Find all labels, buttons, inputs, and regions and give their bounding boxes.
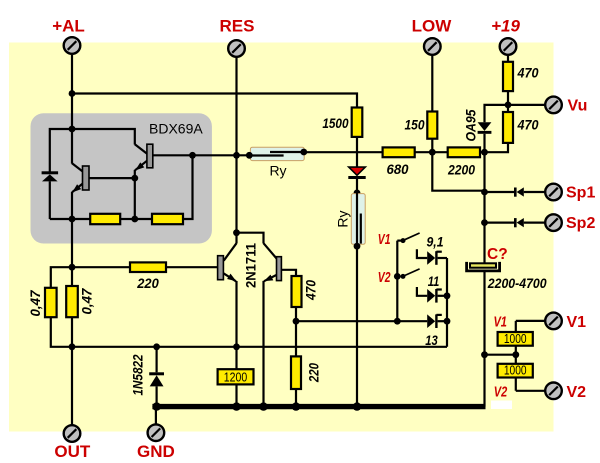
wire to 220 feed: [72, 266, 130, 268]
wire 13 row: [397, 320, 427, 322]
wire base junction to R2: [183, 155, 193, 219]
wire emitter bus left: [50, 218, 90, 220]
wire T1 emitter down: [235, 281, 237, 347]
wire Q1 emitter down: [71, 192, 73, 219]
svg-text:0,47: 0,47: [27, 289, 43, 316]
white patch artifact: [491, 401, 512, 410]
wire left 0,47 branch: [51, 267, 72, 288]
node OA95 bottom: [481, 149, 488, 156]
node BDX base junction: [189, 152, 196, 159]
wire divider vertical: [515, 321, 517, 391]
wire RES vertical: [235, 57, 237, 155]
wire Q2 emitter down: [134, 178, 136, 219]
svg-text:V1: V1: [378, 231, 391, 248]
wire bus to Sp1: [483, 152, 485, 192]
wire Sp1 row: [485, 191, 515, 193]
resistor BDX internal R1: [90, 214, 120, 224]
svg-text:2200: 2200: [447, 162, 475, 178]
diode relay flyback (red): [349, 167, 366, 175]
wire Q2 base: [153, 154, 193, 156]
BDX69A module body: [31, 113, 212, 243]
diode OA95: [478, 122, 492, 131]
resistor 1000 upper: [498, 332, 533, 346]
transistor Q2 (BDX69A driver): [135, 144, 148, 154]
relay contact Ry: [250, 147, 304, 160]
svg-text:1N5822: 1N5822: [129, 354, 145, 395]
node Q2 emitter: [131, 175, 138, 182]
node Sp1: [481, 189, 488, 196]
wire 2N1711 collectors: [237, 233, 264, 244]
node OUT column: [69, 343, 76, 350]
wire to V1 terminal: [516, 320, 545, 322]
node 1N5822: [153, 343, 160, 350]
wire LOW vertical: [431, 55, 433, 112]
svg-text:OUT: OUT: [54, 442, 91, 461]
node V divider tap: [481, 351, 488, 358]
wire 470 to Vu node: [507, 91, 509, 105]
svg-text:RES: RES: [220, 17, 255, 36]
diode Sp2: [514, 218, 517, 227]
terminal LOW: [424, 38, 441, 55]
node RES at contact row: [233, 152, 240, 159]
wire 1500 to relay diode: [356, 137, 358, 167]
wire Q1 base: [89, 177, 135, 179]
terminal +AL: [64, 37, 81, 54]
node zener 11 cathode: [444, 292, 451, 299]
zener 9,1: [417, 249, 427, 258]
wire emitter column to OUT branch: [71, 219, 73, 267]
wire 2200 to OA95 node: [480, 151, 485, 153]
svg-text:C?: C?: [487, 246, 508, 263]
resistor 470 lower: [507, 105, 509, 112]
svg-text:220: 220: [136, 275, 159, 291]
wire diode to emitter bus: [49, 181, 51, 219]
node 13 row left: [394, 318, 401, 325]
wire collector to Q2: [72, 129, 135, 145]
svg-text:GND: GND: [137, 442, 175, 461]
node BDX collector: [69, 126, 76, 133]
wire 470 lower to node: [485, 143, 509, 152]
svg-text:Vu: Vu: [568, 98, 588, 115]
svg-text:1500: 1500: [322, 115, 348, 131]
svg-text:0,47: 0,47: [79, 287, 95, 314]
node feedback: [293, 318, 300, 325]
relay coil Ry: [351, 194, 365, 245]
wire bus to capacitor: [483, 223, 485, 264]
wire RES down to 2N1711: [235, 155, 237, 232]
svg-text:+AL: +AL: [52, 17, 85, 36]
wire right 0,47 branch: [71, 267, 73, 286]
node rail T2 emitter: [259, 402, 267, 410]
wire R2 to center node: [135, 218, 152, 220]
terminal Vu: [545, 97, 562, 114]
wire to Vu terminal: [508, 104, 545, 106]
svg-text:Ry: Ry: [335, 210, 351, 227]
transistor 2N1711 T2: [264, 243, 277, 259]
node 2N1711 collector: [233, 229, 240, 236]
transistor 2N1711 T1: [235, 233, 237, 244]
node +AL rail tap: [69, 90, 76, 97]
svg-text:LOW: LOW: [412, 17, 453, 36]
svg-text:V2: V2: [567, 384, 587, 401]
node coil top: [354, 190, 361, 197]
svg-text:1000: 1000: [504, 332, 527, 346]
wire +AL vertical: [71, 55, 73, 164]
wire +AL rail to 1500: [72, 94, 357, 108]
wire LOW to Sp node: [432, 152, 484, 191]
wire Sp2 row: [485, 222, 515, 224]
svg-text:Ry: Ry: [269, 163, 286, 179]
svg-text:V1: V1: [493, 314, 507, 331]
terminal OUT: [64, 425, 81, 442]
resistor 0,47 left: [45, 288, 57, 317]
svg-text:BDX69A: BDX69A: [149, 120, 203, 136]
zener 11: [417, 287, 427, 296]
node Sp2: [481, 219, 488, 226]
wire switch column: [396, 241, 398, 322]
svg-text:1000: 1000: [504, 364, 527, 378]
svg-text:V2: V2: [378, 269, 391, 286]
svg-text:1200: 1200: [224, 370, 247, 384]
wire capacitor to V node: [483, 272, 485, 355]
node rail 1200: [232, 402, 240, 410]
node Q1 emitter: [69, 216, 76, 223]
wire 0,47 left to bottom: [51, 317, 72, 347]
svg-text:V2: V2: [494, 384, 508, 401]
resistor 1000 lower: [498, 364, 533, 378]
wire GND stub: [155, 408, 157, 424]
terminal V1: [545, 313, 562, 330]
svg-text:+19: +19: [491, 17, 520, 36]
node T1 emitter row: [233, 343, 240, 350]
terminal RES: [228, 40, 245, 57]
svg-text:470: 470: [303, 280, 319, 301]
resistor 680: [383, 147, 415, 157]
wire 150 to junction: [431, 139, 433, 153]
node LOW junction: [429, 149, 436, 156]
node rail 220: [292, 402, 300, 410]
node Vu: [505, 102, 512, 109]
svg-text:13: 13: [425, 332, 438, 348]
diode Sp1: [514, 188, 517, 197]
resistor 470 (T2 base): [292, 276, 302, 307]
resistor 0,47 right: [66, 286, 78, 317]
node internal center: [131, 216, 138, 223]
wire bottom sense row: [72, 346, 447, 348]
wire 220 to rail: [295, 389, 297, 407]
svg-text:2200-4700: 2200-4700: [487, 275, 547, 291]
wire T2 emitter to rail: [262, 281, 264, 407]
wire to V2 terminal: [516, 390, 545, 392]
svg-text:11: 11: [428, 273, 440, 289]
wire V node to rail end: [483, 355, 485, 407]
wire 470 to feedback node: [295, 307, 297, 321]
terminal Sp2: [545, 214, 562, 231]
svg-text:2N1711: 2N1711: [242, 243, 258, 288]
capacitor C? 2200-4700: [470, 263, 496, 267]
svg-text:150: 150: [405, 117, 425, 133]
wire 680 to 2200: [415, 151, 448, 153]
wire feedback node to 220: [295, 321, 297, 356]
node coil bottom: [354, 243, 361, 250]
node rail coil: [353, 402, 361, 410]
wire V node to divider: [485, 354, 516, 356]
wire +19 to 470: [507, 55, 509, 62]
wire 220 to T1 base: [166, 266, 218, 268]
resistor BDX internal R2: [152, 214, 183, 224]
resistor 150: [427, 112, 437, 139]
resistor 2200: [448, 147, 480, 157]
wire diode to coil: [356, 179, 358, 193]
transistor Q1 (BDX69A output): [72, 163, 83, 171]
node OUT branch: [69, 264, 76, 271]
terminal V2: [545, 383, 562, 400]
svg-text:9,1: 9,1: [427, 233, 444, 249]
wire to OUT terminal: [71, 347, 73, 425]
node zener 13 cathode: [444, 318, 451, 325]
wire coil to ground rail: [356, 244, 358, 406]
resistor 470 upper: [503, 62, 513, 91]
svg-text:V1: V1: [567, 314, 587, 331]
terminal Sp1: [545, 184, 562, 201]
wire R1 to center node: [120, 218, 135, 220]
node divider center: [512, 351, 519, 358]
zener 13: [427, 314, 435, 328]
svg-text:OA95: OA95: [462, 109, 478, 141]
svg-text:680: 680: [387, 161, 409, 177]
wire feedback row: [296, 320, 397, 322]
node rail GND: [152, 402, 160, 410]
wire contact to 680: [304, 151, 383, 153]
svg-text:220: 220: [306, 363, 322, 383]
ground rail: [152, 404, 485, 409]
resistor 1200: [218, 369, 254, 384]
wire T1 emitter to rail: [235, 347, 237, 407]
terminal +19: [500, 38, 517, 55]
wire Vu node to OA95: [485, 105, 509, 122]
diode BDX internal (C-E protection): [42, 171, 59, 174]
diode 1N5822: [156, 347, 158, 373]
svg-text:Sp2: Sp2: [566, 215, 595, 232]
wire 0,47 right to bottom: [71, 317, 73, 347]
wire collector to internal diode: [50, 129, 72, 172]
node V2 switch: [394, 273, 401, 280]
svg-text:470: 470: [517, 65, 539, 81]
resistor 220 horizontal: [130, 262, 166, 272]
wire bus to Sp2: [483, 192, 485, 223]
wire T2 base to 470: [281, 270, 296, 276]
wire base junction to contact: [193, 154, 250, 156]
wire zener bus: [446, 258, 448, 347]
resistor 220 vertical: [291, 356, 301, 389]
svg-text:470: 470: [517, 117, 539, 133]
terminal GND: [148, 424, 165, 441]
resistor 1500: [352, 108, 363, 137]
svg-text:Sp1: Sp1: [566, 185, 595, 202]
